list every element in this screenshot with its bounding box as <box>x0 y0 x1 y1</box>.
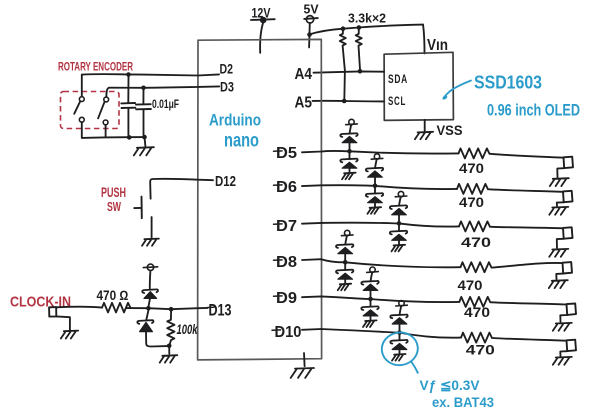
junction node / R4 top <box>169 307 174 312</box>
wire encoder commons ground rail <box>82 122 145 138</box>
power 12V terminal <box>251 17 275 24</box>
ground J7 <box>549 249 568 257</box>
svg-text:Vın: Vın <box>427 37 448 54</box>
switch S1b lever <box>98 102 105 119</box>
connector J7 jack <box>557 227 573 248</box>
resistor R5 470 <box>459 148 490 158</box>
wire R3 to node <box>127 307 149 309</box>
diode D5-down schottky to GND <box>340 153 357 172</box>
svg-text:A5: A5 <box>295 95 313 112</box>
ground nano GND <box>291 368 314 378</box>
resistor R7 470 <box>459 221 490 231</box>
wire D10 row right segment <box>493 338 567 341</box>
pin label D5 <box>274 145 298 162</box>
wire D8 row left segment <box>302 259 461 267</box>
svg-text:470: 470 <box>461 234 491 250</box>
pin label D9 <box>274 290 298 307</box>
svg-text:ex. BAT43: ex. BAT43 <box>432 395 494 410</box>
junction D10 / clamp chain <box>397 330 402 335</box>
connector J-IN jack <box>49 307 70 330</box>
ground clamp chain D6 <box>368 207 382 214</box>
switch S1b contacts <box>103 97 108 125</box>
svg-text:0.96 inch OLED: 0.96 inch OLED <box>487 102 580 120</box>
wire A4 to SDA <box>314 71 385 72</box>
wire R4 to ground <box>168 346 170 354</box>
ground clamp <box>160 355 178 362</box>
wire VSS stub <box>424 120 426 131</box>
push-button switch S2 <box>134 197 142 219</box>
annotation circle around BAT43 diode <box>380 330 420 367</box>
svg-text:D10: D10 <box>275 324 302 341</box>
svg-text:D3: D3 <box>220 80 234 95</box>
diode D10-down schottky to GND <box>390 335 407 354</box>
annotation arrow to OLED <box>443 81 471 99</box>
diode D10-up schottky to 5V <box>390 306 407 331</box>
junction rail / C2 <box>142 135 147 140</box>
ground J5 <box>550 178 569 186</box>
connector J9 jack <box>560 304 576 322</box>
svg-text:VSS: VSS <box>437 123 463 138</box>
wire 12V to nano VIN <box>260 23 263 53</box>
wire jack to R3 <box>56 306 102 309</box>
junction rail / C1 <box>127 135 132 140</box>
connector J5 jack <box>557 157 573 178</box>
diode D6-down schottky to GND <box>366 188 383 207</box>
wire D10 row left segment <box>302 329 461 338</box>
switch S1a contacts <box>79 97 84 122</box>
wire D5 row left segment <box>302 151 459 154</box>
svg-text:ROTARY ENCODER: ROTARY ENCODER <box>58 62 133 74</box>
svg-text:D2: D2 <box>220 62 234 77</box>
rotary encoder S1 outline <box>61 92 120 129</box>
capacitor C1 0.01uF <box>121 76 135 137</box>
ground encoder <box>134 147 154 155</box>
wire rail to ground <box>144 137 147 146</box>
power 5V terminal <box>304 16 318 23</box>
junction D13 node <box>146 306 151 311</box>
svg-text:D12: D12 <box>215 173 236 190</box>
svg-text:SSD1603: SSD1603 <box>474 73 542 93</box>
wire D12 to push switch <box>150 179 213 199</box>
svg-text:D5: D5 <box>276 145 297 162</box>
pin label D13 <box>208 302 232 320</box>
ground J6 <box>549 207 568 215</box>
svg-text:D9: D9 <box>276 290 297 307</box>
annotation leader line <box>412 362 418 373</box>
svg-text:470 Ω: 470 Ω <box>97 288 129 303</box>
wire encoder A to D2 <box>82 74 219 97</box>
wire 5V into nano <box>308 37 310 48</box>
switch S1a lever <box>74 101 80 114</box>
resistor R10 470 <box>461 333 492 343</box>
ground J-IN <box>61 331 78 339</box>
junction D6 / clamp chain <box>373 184 378 189</box>
connector J8 jack <box>556 262 572 279</box>
wire 5V terminal down <box>309 23 311 33</box>
wire encoder B to D3 <box>106 86 219 97</box>
pin label D6 <box>274 179 298 196</box>
power terminal clamp chain D7 <box>395 191 407 196</box>
junction D9 / clamp chain <box>368 297 373 302</box>
svg-text:Vƒ ≦0.3V: Vƒ ≦0.3V <box>420 378 480 393</box>
diode D9-up schottky to 5V <box>361 272 378 297</box>
power terminal clamp chain D9 <box>367 267 379 272</box>
IC U2 OLED module outline <box>384 52 453 120</box>
svg-text:D6: D6 <box>276 179 297 196</box>
resistor R6 470 <box>457 184 488 194</box>
power terminal clamp chain D6 <box>371 154 383 159</box>
diode D9-down schottky to GND <box>361 301 378 320</box>
svg-text:3.3k×2: 3.3k×2 <box>348 11 386 26</box>
wire D5 row right segment <box>490 154 563 158</box>
junction clamp / R4 bottom <box>167 344 172 349</box>
svg-text:A4: A4 <box>295 66 313 83</box>
ground VSS <box>415 132 433 139</box>
svg-text:0.01μF: 0.01μF <box>152 99 179 111</box>
ground clamp chain D10 <box>392 354 406 361</box>
svg-text:Arduino: Arduino <box>209 112 261 130</box>
junction D5 / clamp chain <box>347 149 352 154</box>
wire D8 row right segment <box>493 263 563 268</box>
svg-text:SDA: SDA <box>388 74 408 86</box>
svg-text:PUSH: PUSH <box>101 184 126 200</box>
capacitor C2 0.01uF <box>136 89 151 137</box>
junction D8 / clamp chain <box>343 260 348 265</box>
junction C1 / D2 wire <box>126 72 131 77</box>
wire S2 to ground <box>151 217 153 237</box>
svg-text:SCL: SCL <box>388 96 406 108</box>
junction R1 / SCL <box>342 99 347 104</box>
pin label D7 <box>274 218 298 235</box>
svg-text:470: 470 <box>459 160 484 176</box>
svg-text:470: 470 <box>464 304 490 320</box>
junction 5V node <box>307 32 312 37</box>
wire D7 row left segment <box>302 223 459 227</box>
junction rail / R2 <box>357 25 362 30</box>
svg-text:D8: D8 <box>276 254 297 271</box>
wire D9 row right segment <box>491 302 566 304</box>
ground clamp chain D9 <box>363 320 377 327</box>
power terminal clamp chain D5 <box>346 119 358 124</box>
resistor R3 470 <box>102 303 131 313</box>
diode D8-up schottky to 5V <box>336 236 353 261</box>
wire D6 row right segment <box>489 189 563 192</box>
ground J10 <box>553 357 572 365</box>
wire D6 row left segment <box>302 185 457 189</box>
svg-text:470: 470 <box>459 194 484 210</box>
connector J10 jack <box>560 340 576 356</box>
svg-text:470: 470 <box>466 342 495 358</box>
wire 5V rail to Vin bend <box>310 25 424 35</box>
junction R2 / SDA <box>358 69 363 74</box>
power terminal clamp chain D10 <box>396 301 408 306</box>
ground S2 <box>142 239 159 246</box>
svg-text:100k: 100k <box>177 321 199 337</box>
wire nano GND stub <box>303 353 306 366</box>
diode D2 schottky clamp to GND <box>137 310 167 346</box>
ground J9 <box>553 323 572 331</box>
wire D9 row left segment <box>302 296 459 302</box>
resistor R9 470 <box>459 297 490 307</box>
pin label D10 <box>272 324 302 341</box>
ground clamp chain D5 <box>342 173 356 180</box>
wire D7 row right segment <box>491 227 563 229</box>
junction rail / R1 <box>341 26 346 31</box>
diode D7-down schottky to GND <box>390 225 407 244</box>
resistor R1 3.3k SCL pull-up <box>340 29 346 101</box>
diode D8-down schottky to GND <box>336 264 353 283</box>
power terminal clamp chain D8 <box>341 230 353 235</box>
svg-text:470: 470 <box>458 277 483 293</box>
resistor R8 470 <box>461 262 492 272</box>
wire A5 to SCL <box>313 100 385 103</box>
svg-text:nano: nano <box>224 131 259 152</box>
ground clamp chain D8 <box>338 284 352 291</box>
power terminal clamp 5V <box>143 264 157 270</box>
resistor R4 100k <box>167 311 174 346</box>
diode D6-up schottky to 5V <box>366 159 383 184</box>
svg-text:5V: 5V <box>304 3 320 17</box>
IC U1 Arduino Nano outline <box>198 39 322 360</box>
svg-text:D13: D13 <box>209 302 232 320</box>
diode D5-up schottky to 5V <box>340 125 357 150</box>
connector J6 jack <box>557 191 573 206</box>
diode D1 schottky clamp to 5V <box>142 271 158 306</box>
ground J8 <box>549 280 568 288</box>
ground clamp chain D7 <box>392 245 406 252</box>
junction C2 / D3 wire <box>141 86 146 91</box>
resistor R2 3.3k SDA pull-up <box>356 28 362 72</box>
diode D7-up schottky to 5V <box>390 197 407 222</box>
pin label D8 <box>274 254 298 271</box>
junction D7 / clamp chain <box>397 221 402 226</box>
svg-text:D7: D7 <box>276 218 297 235</box>
wire Vin drop <box>423 25 425 54</box>
wire node to R4 <box>148 308 207 309</box>
svg-text:SW: SW <box>107 199 121 214</box>
